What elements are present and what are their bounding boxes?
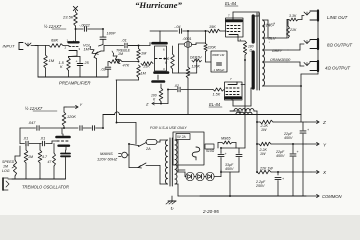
wire vol wiper to tone — [101, 46, 104, 52]
svg-text:1M: 1M — [84, 48, 90, 52]
wire OT secondary taps — [263, 20, 301, 86]
jack 8 ohm — [304, 41, 310, 44]
wire osc verticals — [26, 144, 54, 180]
svg-text:680P 1M: 680P 1M — [212, 53, 224, 57]
resistor 22K 1W (row X) — [257, 170, 271, 174]
input jack J1 — [18, 43, 20, 50]
svg-text:510Ω: 510Ω — [206, 149, 215, 153]
usa plug squiggle — [192, 147, 200, 157]
svg-text:.25: .25 — [84, 61, 90, 65]
rectifier diode D3 — [206, 172, 214, 180]
capacitor .0022 — [83, 27, 85, 32]
svg-text:EL-84: EL-84 — [209, 102, 221, 107]
svg-text:120K: 120K — [67, 115, 76, 119]
wire cathode res to ground — [68, 71, 70, 78]
wire .02 V3 left — [168, 89, 177, 91]
svg-text:½ 12AX7: ½ 12AX7 — [44, 24, 62, 29]
rail COMMON — [200, 195, 306, 197]
svg-text:5V 2A: 5V 2A — [177, 135, 186, 139]
chassis ground — [171, 196, 173, 201]
resistor 120K (PI tail) — [186, 67, 190, 78]
wire 120K top — [64, 107, 66, 112]
svg-text:47K: 47K — [123, 64, 130, 68]
svg-text:22K 1W: 22K 1W — [259, 167, 273, 171]
svg-text:↻: ↻ — [170, 206, 174, 211]
wire .04 to 15K — [183, 30, 208, 32]
component 100ohm box — [205, 144, 214, 149]
capacitor 2.2uF 250V — [277, 172, 279, 175]
wire 68K to grid — [63, 45, 69, 47]
svg-text:15K: 15K — [143, 65, 150, 69]
capacitor 180P — [100, 36, 106, 38]
svg-text:450V: 450V — [284, 136, 293, 140]
resistor 1M (mid lower) — [137, 65, 141, 78]
switch S1a — [139, 142, 147, 146]
resistor 2.2K 1W (row Y) — [259, 142, 271, 146]
junction dot 7 — [160, 103, 162, 105]
svg-text:FOR U.S.A USE ONLY: FOR U.S.A USE ONLY — [150, 126, 187, 130]
arrowhead Z feed — [152, 102, 154, 105]
junction dot 10 — [256, 121, 258, 123]
wire preamp drop — [116, 80, 118, 123]
transformer OT primary lower — [252, 52, 255, 88]
resistor 470K osc — [38, 150, 42, 163]
wire plate node — [75, 26, 77, 41]
svg-text:250V: 250V — [255, 184, 265, 188]
svg-text:Y: Y — [80, 102, 83, 107]
svg-text:Z: Z — [145, 102, 149, 107]
resistor 1M osc a — [24, 150, 28, 163]
capacitor feedback — [217, 62, 222, 64]
resistor 120K tremolo — [62, 112, 66, 126]
svg-text:+: + — [76, 60, 78, 64]
wire rect to caps — [220, 170, 222, 172]
wire choke ends — [230, 111, 257, 122]
svg-text:1.5K: 1.5K — [213, 93, 221, 97]
wire osc grid mid — [29, 143, 41, 145]
svg-text:SPEED: SPEED — [2, 160, 15, 164]
resistor 23.5K (plate load V1) — [74, 12, 78, 26]
svg-text:ORANGE: ORANGE — [270, 58, 286, 62]
svg-text:1W: 1W — [261, 128, 267, 132]
wire mid bottom — [116, 78, 139, 81]
svg-text:1M: 1M — [28, 155, 33, 159]
svg-text:LOG: LOG — [2, 169, 10, 173]
switch S1b — [138, 163, 146, 168]
svg-text:.01: .01 — [122, 39, 127, 43]
svg-text:PREAMPLIFIER: PREAMPLIFIER — [59, 81, 91, 86]
wire osc row right — [20, 115, 103, 144]
capacitor .02 (bass) — [107, 62, 109, 67]
junction dot 4 — [102, 127, 104, 129]
svg-text:X: X — [322, 170, 327, 175]
svg-text:+: + — [297, 150, 299, 154]
svg-text:2A: 2A — [145, 147, 151, 151]
wire filter caps top — [221, 110, 245, 152]
feedback box — [211, 51, 227, 72]
resistor 3.3K — [289, 18, 298, 21]
jack LINE OUT — [304, 12, 310, 15]
svg-text:3: 3 — [163, 67, 165, 71]
svg-text:.0001: .0001 — [183, 37, 192, 41]
wire orange to 4ohm jack — [287, 62, 304, 66]
wire input to 68K — [31, 45, 49, 47]
junction dot 2 — [102, 28, 104, 30]
svg-text:450V: 450V — [276, 154, 285, 158]
jack 4 ohm — [304, 63, 310, 66]
svg-text:21K: 21K — [289, 28, 297, 32]
wire PI box — [173, 44, 197, 73]
wire pt sec to common — [178, 195, 200, 197]
wire depth wiper — [196, 63, 198, 74]
svg-text:“Hurricane”: “Hurricane” — [135, 0, 183, 10]
capacitor 22uF 450V (Y) — [292, 144, 294, 153]
svg-text:7: 7 — [228, 14, 230, 18]
tube EL-84 V3 (mirrored) — [225, 82, 243, 100]
svg-text:+: + — [282, 177, 284, 181]
wire top rail drop — [230, 111, 240, 115]
svg-text:1M: 1M — [3, 165, 8, 169]
svg-text:LINE OUT: LINE OUT — [327, 15, 348, 20]
triode V4 tremolo — [57, 134, 70, 150]
svg-text:47: 47 — [48, 160, 52, 164]
wire 220K down — [206, 52, 212, 63]
arrow Z — [306, 121, 319, 123]
junction dot 1 — [75, 28, 77, 30]
wire grid to triode — [46, 141, 57, 144]
wire row Y to arrow — [271, 143, 306, 145]
junction dot 22 — [116, 122, 118, 124]
junction dot 20 — [229, 195, 231, 197]
svg-text:K: K — [60, 65, 63, 69]
svg-text:½ 12AX7: ½ 12AX7 — [25, 106, 43, 111]
svg-text:K: K — [153, 98, 156, 102]
transformer PT secondary — [175, 140, 177, 184]
svg-text:GREY: GREY — [272, 49, 283, 53]
resistor 220K — [205, 31, 207, 44]
svg-text:2: 2 — [65, 46, 67, 50]
wire foot jack — [8, 178, 12, 180]
wire input ground leg — [35, 46, 38, 78]
capacitor osc b — [79, 126, 81, 131]
wire row Z left — [257, 121, 260, 123]
tube EL-84 V2 — [226, 18, 244, 37]
wire pi tail lower — [187, 78, 189, 115]
wire V3 grid chain — [181, 89, 213, 91]
capacitor .01 b — [41, 141, 43, 146]
svg-text:.047: .047 — [28, 121, 36, 125]
wire sw2 to pt — [146, 166, 160, 185]
wire caps bottom — [221, 172, 239, 196]
svg-text:.1 680μF: .1 680μF — [213, 68, 225, 72]
svg-text:120V 60HZ: 120V 60HZ — [97, 157, 118, 162]
wire vol bottom to ground — [96, 59, 98, 78]
usa box — [173, 132, 204, 165]
node X (B+ supply mark) — [73, 6, 77, 10]
svg-text:K: K — [165, 61, 168, 65]
resistor 15K (mid) — [141, 62, 153, 66]
wire pi tail upper — [187, 47, 189, 67]
transformer PT primary — [166, 140, 168, 184]
capacitor osc c — [91, 126, 93, 131]
triode V1b (second half 12AX7) — [153, 42, 169, 73]
svg-text:.01: .01 — [23, 137, 28, 141]
resistor 21K shunt — [287, 26, 290, 38]
wire 47K to mid node — [122, 61, 139, 63]
wire row Y bus — [256, 122, 258, 144]
resistor 2.2K 1W (row Z) — [260, 120, 273, 124]
arrow Y — [306, 143, 319, 145]
wire cap to vol pot — [88, 29, 103, 37]
svg-text:EL-84: EL-84 — [225, 1, 237, 6]
resistor 1M (grid leak) — [45, 46, 47, 56]
wire to .04 — [160, 30, 178, 32]
transformer OT secondary — [263, 20, 265, 86]
svg-text:3: 3 — [240, 38, 242, 42]
svg-text:7: 7 — [230, 77, 232, 81]
wire hv secondary — [178, 170, 185, 177]
wire V2 screen — [244, 55, 246, 60]
usa inner box — [176, 134, 190, 140]
junction dot 12 — [256, 171, 258, 173]
svg-text:+: + — [225, 152, 227, 156]
wire rail to row Z — [300, 115, 302, 123]
svg-text:.02: .02 — [174, 84, 179, 88]
svg-text:.01: .01 — [40, 137, 45, 141]
svg-text:Z: Z — [322, 120, 326, 125]
capacitor 33uF 450V b — [238, 152, 240, 154]
junction dot 11 — [256, 143, 258, 145]
junction dot 15 — [138, 61, 140, 63]
wire osc plate — [62, 126, 64, 134]
resistor 1.5K (cathode V1a) — [67, 58, 71, 71]
wire mains top — [129, 144, 139, 146]
arrow Y feed — [66, 106, 78, 108]
svg-text:-.0022: -.0022 — [79, 24, 91, 28]
wire treble to 47K — [109, 61, 110, 63]
svg-text:COMMON: COMMON — [322, 194, 343, 199]
svg-text:-.04: -.04 — [174, 25, 181, 29]
wire mid node top — [128, 46, 138, 49]
wire V3 plate to OT — [233, 88, 253, 106]
rectifier diode D1 — [186, 172, 194, 180]
underline 12AX7 — [52, 28, 66, 30]
rail main bus — [103, 114, 115, 116]
resistor 47K — [110, 60, 123, 64]
svg-text:.02: .02 — [101, 68, 107, 72]
wire after .01 — [128, 43, 150, 46]
wire box bottom — [158, 75, 161, 88]
capacitor 33uF 450V a — [220, 152, 222, 154]
wire tone top — [104, 45, 124, 47]
wire m965 — [218, 143, 236, 149]
rectifier diode D2 — [196, 172, 204, 180]
svg-text:4.7: 4.7 — [42, 155, 48, 159]
svg-text:MAINS: MAINS — [100, 151, 113, 156]
svg-text:23.5K: 23.5K — [62, 15, 74, 20]
junction dot 21 — [220, 171, 222, 173]
junction dot 9 — [220, 147, 222, 149]
svg-text:3: 3 — [79, 47, 81, 51]
wire row Y left — [257, 143, 259, 145]
wire mains vertical — [128, 144, 130, 168]
transformer PT core — [169, 138, 171, 186]
capacitor .04 — [178, 29, 180, 34]
svg-text:TREMOLO OSCILLATOR: TREMOLO OSCILLATOR — [22, 185, 69, 190]
wire pt secondary ends — [175, 140, 178, 196]
resistor 15K (grid EL84) — [208, 29, 220, 33]
junction dot 18 — [292, 143, 294, 145]
resistor 180 ohm (cathode V2) — [243, 41, 246, 55]
wire speed top — [15, 146, 20, 156]
arrow X — [311, 171, 319, 173]
resistor 47K osc — [53, 153, 56, 166]
potentiometer SPEED — [13, 160, 16, 176]
wire row Z to arrow — [273, 121, 306, 123]
junction dot 6 — [205, 30, 207, 32]
capacitor cathode bypass V4 — [61, 153, 70, 155]
wire diode chain — [185, 172, 221, 177]
junction dot 13 — [128, 143, 130, 145]
capacitor .047 — [36, 126, 38, 131]
svg-text:120K: 120K — [192, 65, 201, 69]
fuse 2A — [146, 140, 157, 145]
resistor 68K (grid stopper) — [49, 44, 63, 48]
wire osc row mid — [40, 127, 78, 129]
wire pt primary ends — [160, 140, 168, 184]
svg-text:M965: M965 — [221, 137, 231, 141]
resistor 1.5K grid V3 — [213, 88, 224, 91]
svg-text:1M: 1M — [118, 52, 123, 56]
junction dot 19 — [277, 171, 279, 173]
wire osc grid row — [20, 143, 25, 145]
junction dot 8 — [167, 89, 169, 91]
triode V1a plate/grid/cathode — [69, 41, 79, 52]
wire osc top row — [20, 127, 36, 129]
wire circle cap out — [191, 43, 205, 45]
wire row X bus — [256, 144, 258, 172]
capacitor coupling bar — [153, 80, 165, 83]
svg-text:220K: 220K — [207, 46, 217, 50]
capacitor .01 (treble) — [124, 43, 126, 48]
junction dot 17 — [300, 85, 302, 87]
wire to volume pot — [99, 40, 104, 46]
svg-text:2-20-95: 2-20-95 — [202, 209, 219, 214]
transformer OT primary upper — [253, 16, 259, 42]
transformer OT core — [256, 13, 258, 90]
svg-text:3.3K: 3.3K — [289, 14, 297, 18]
wire hop over — [115, 112, 120, 115]
svg-text:DEPTH: DEPTH — [190, 56, 202, 60]
resistor 1M (mid upper) — [137, 49, 141, 61]
resistor 100K (below V1b) — [159, 88, 163, 102]
arrow COMMON — [306, 195, 319, 197]
rail tremolo ground — [12, 178, 66, 180]
varistor M965 — [222, 141, 232, 144]
potentiometer TREBLE 1M — [113, 54, 120, 64]
svg-text:68K: 68K — [51, 38, 58, 43]
wire B+ to plate resistor — [75, 11, 77, 13]
wire cathode down — [69, 52, 78, 58]
svg-text:Y: Y — [323, 143, 327, 148]
svg-text:8Ω OUTPUT: 8Ω OUTPUT — [327, 43, 352, 48]
capacitor .0001 — [187, 31, 189, 42]
wire V2 cathode — [238, 37, 245, 41]
capacitor 22uF 450V (Z) — [302, 122, 304, 130]
svg-text:180P: 180P — [107, 32, 116, 36]
wire blu to 3.3K — [287, 20, 289, 39]
footswitch jack — [2, 178, 4, 190]
wire 3.3K to line jack — [298, 16, 304, 20]
capacitor .02 grid V3 — [177, 87, 179, 92]
svg-text:1W: 1W — [260, 152, 266, 156]
mains plug — [122, 152, 128, 158]
svg-text:+: + — [307, 128, 309, 132]
svg-text:6: 6 — [163, 48, 165, 52]
wire fuse to pt — [157, 140, 160, 142]
capacitor .01 a — [25, 141, 27, 146]
potentiometer VOL 1M — [90, 47, 97, 59]
svg-text:400: 400 — [285, 58, 291, 62]
potentiometer DEPTH — [192, 59, 202, 62]
wire V3 screen — [241, 84, 245, 86]
wire plate to coupling cap — [76, 28, 84, 30]
wire jack sleeve bus — [301, 21, 318, 115]
wire screen bus — [244, 60, 246, 110]
capacitor .25 (cathode bypass) — [79, 57, 81, 63]
wire V2 plate to OT — [233, 12, 259, 18]
wire mains bottom — [129, 167, 138, 169]
wire v1b top — [159, 31, 161, 42]
svg-text:4Ω OUTPUT: 4Ω OUTPUT — [325, 66, 350, 71]
inductor choke — [234, 109, 254, 111]
wire lower link — [117, 123, 137, 145]
svg-text:450V: 450V — [225, 167, 234, 171]
svg-text:15K: 15K — [209, 25, 216, 29]
resistor 100K (plate V1b) — [172, 46, 174, 54]
junction dot 5 — [187, 30, 189, 32]
ground rail preamp — [38, 76, 108, 78]
svg-text:1M: 1M — [141, 72, 147, 76]
wire grey to 8ohm jack — [288, 44, 304, 50]
wire 100K to Z arrow — [152, 90, 168, 104]
junction dot 3 — [63, 127, 65, 129]
svg-text:↓: ↓ — [269, 40, 271, 44]
wire row X to arrow — [271, 171, 311, 173]
wire 15K to EL84 grid — [220, 30, 226, 32]
svg-text:1M: 1M — [49, 58, 55, 63]
svg-text:INPUT: INPUT — [3, 44, 16, 49]
svg-text:1M: 1M — [141, 52, 147, 56]
junction dot 14 — [138, 45, 140, 47]
junction dot 16 — [244, 59, 246, 61]
